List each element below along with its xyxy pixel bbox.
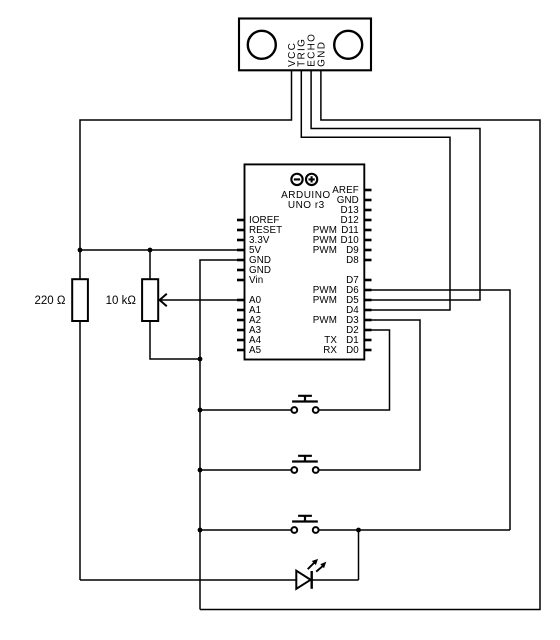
pin stub D8 — [364, 259, 371, 262]
svg-text:PWM: PWM — [313, 315, 337, 326]
pin stub D12 — [364, 219, 371, 222]
wire button S3 node down to LED — [358, 530, 360, 580]
pin stub A5 — [237, 349, 245, 352]
pin stub D9 — [364, 249, 371, 252]
wire sensor ECHO to D5 — [311, 70, 480, 300]
pushbutton S2 — [291, 456, 318, 473]
svg-text:220 Ω: 220 Ω — [35, 295, 66, 307]
pin stub A3 — [237, 329, 245, 332]
pin stub A2 — [237, 319, 245, 322]
resistor R1 220 ohm — [72, 279, 88, 321]
pin stub IOREF — [237, 219, 245, 222]
pin stub RESET — [237, 229, 245, 232]
pin stub D10 — [364, 239, 371, 242]
wire sensor TRIG to D4 — [301, 70, 450, 310]
pin stub 5V — [237, 249, 245, 252]
svg-text:D8: D8 — [346, 255, 359, 266]
pin stub D2 — [364, 329, 371, 332]
pin stub D1 — [364, 339, 371, 342]
node ground rail / S1 junction — [198, 408, 203, 413]
wire button S3 to D6 node — [319, 529, 510, 531]
node ground rail / S2 junction — [198, 468, 203, 473]
pushbutton S1 — [291, 396, 318, 413]
pin stub D11 — [364, 229, 371, 232]
pin stub GND — [237, 269, 245, 272]
LED D1 — [296, 559, 326, 589]
pin stub D0 — [364, 349, 371, 352]
node 5V rail / resistor junction — [78, 248, 83, 253]
node ground rail / pot bottom junction — [198, 357, 203, 362]
svg-text:Vin: Vin — [249, 275, 263, 286]
pin stub GND — [237, 259, 245, 262]
wire sensor VCC to 5V rail — [80, 70, 292, 250]
pin stub A0 — [237, 299, 245, 302]
potentiometer RV1 10k body — [142, 279, 158, 321]
pin stub A4 — [237, 339, 245, 342]
pin stub D4 — [364, 309, 371, 312]
wire ground rail to button S1 — [200, 409, 291, 411]
wire ground rail to button S2 — [200, 469, 291, 471]
resistor R1 220 ohm leads — [79, 250, 81, 580]
svg-text:PWM: PWM — [313, 245, 337, 256]
wire D6 to button S3 / LED node — [372, 290, 511, 530]
pin stub A1 — [237, 309, 245, 312]
potentiometer RV1 leads — [150, 250, 200, 359]
svg-text:D0: D0 — [346, 345, 359, 356]
pin stub GND — [364, 199, 371, 202]
svg-text:A5: A5 — [249, 345, 262, 356]
pushbutton S3 — [291, 516, 318, 533]
pin stub AREF — [364, 189, 371, 192]
svg-text:GND: GND — [316, 41, 327, 67]
wire D3 to button S2 — [319, 320, 420, 470]
Arduino UNO r3 body U1 — [245, 164, 365, 359]
wire LED row — [80, 579, 359, 581]
pin stub D5 — [364, 299, 371, 302]
svg-text:PWM: PWM — [313, 295, 337, 306]
pin stub D7 — [364, 279, 371, 282]
node S3 / LED branch junction — [356, 528, 361, 533]
ultrasonic sensor module (HC-SR04) body — [239, 19, 371, 71]
pin stub D13 — [364, 209, 371, 212]
svg-text:RX: RX — [323, 345, 337, 356]
Arduino logo — [291, 174, 317, 185]
node 5V rail / potentiometer junction — [148, 248, 153, 253]
wire ground rail to button S3 — [200, 529, 291, 531]
pin stub D6 — [364, 289, 371, 292]
node ground rail / S3 junction — [198, 528, 203, 533]
svg-text:UNO r3: UNO r3 — [288, 200, 325, 211]
pin stub 3.3V — [237, 239, 245, 242]
wire 5V rail — [80, 249, 237, 251]
pin stub D3 — [364, 319, 371, 322]
wire sensor GND right loop to bottom — [200, 70, 540, 609]
wire A0 to potentiometer wiper — [159, 299, 237, 301]
potentiometer wiper arrow — [160, 294, 167, 307]
pin stub Vin — [237, 279, 245, 282]
wire D2 to button S1 — [319, 330, 390, 410]
svg-text:10 kΩ: 10 kΩ — [106, 295, 137, 307]
wire GND rail — [200, 260, 237, 610]
